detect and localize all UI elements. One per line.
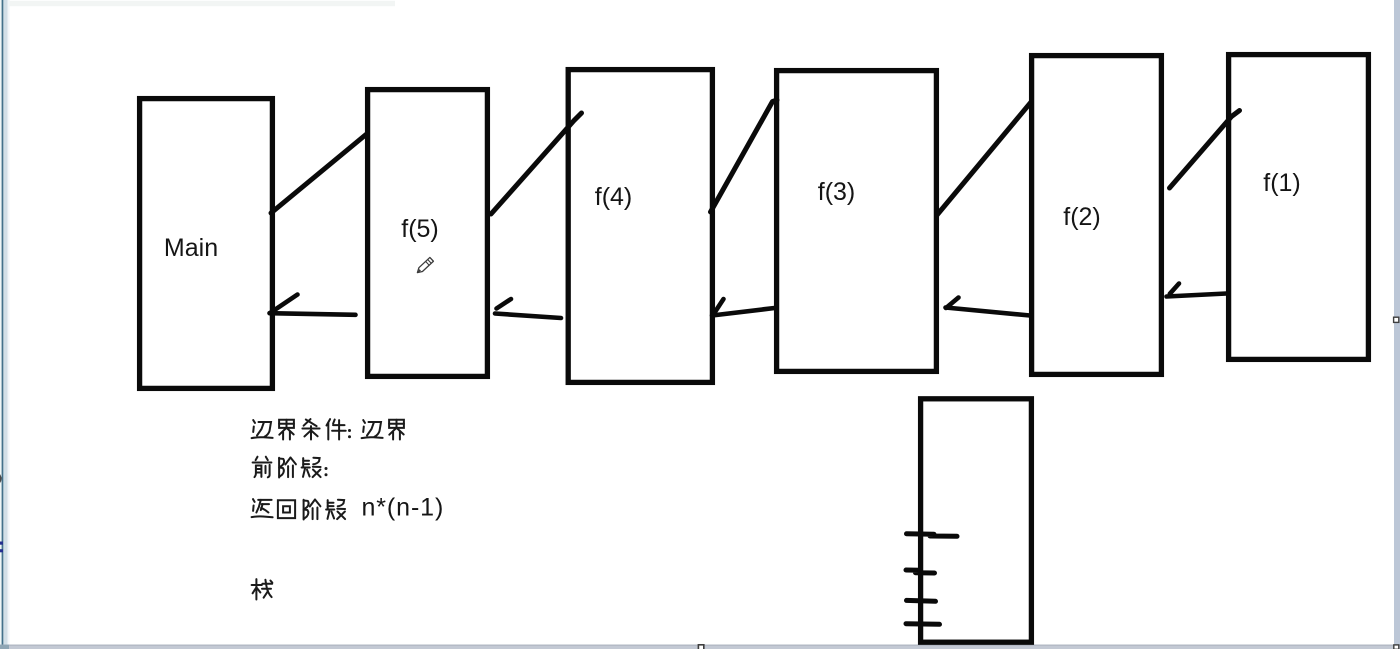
- call arrow f(2) to f(1): [1170, 111, 1240, 189]
- return arrow f(3) to f(4) barb: [714, 299, 724, 314]
- call arrow Main to f(5): [271, 135, 366, 214]
- return arrow f(4) to f(5) barb: [497, 299, 512, 309]
- stack tick 2: [906, 570, 935, 573]
- box Main: [140, 99, 273, 389]
- call arrow f(3) to f(2): [937, 102, 1032, 216]
- bottom scrollbar bar: [0, 645, 1400, 649]
- return arrow f(2) to f(3) barb: [946, 298, 959, 309]
- call arrow f(5) to f(4): [491, 113, 582, 214]
- bottom scrollbar square marker: [698, 645, 703, 649]
- box f(3): [777, 71, 937, 372]
- box f(1): [1229, 55, 1369, 360]
- left edge dark smudge: [0, 474, 2, 483]
- faint top toolbar band: [9, 1, 395, 6]
- annotation line 3 text: fan hui jie duan: [252, 499, 346, 519]
- svg-text:f(4): f(4): [595, 183, 633, 211]
- return arrow f(3) to f(4) shaft: [712, 308, 775, 316]
- left edge blue dashes: [0, 542, 3, 553]
- return arrow f(1) to f(2) shaft: [1167, 294, 1227, 297]
- return arrow f(2) to f(3) shaft: [946, 308, 1031, 316]
- call arrow f(4) to f(3): [711, 100, 778, 212]
- annotation line 1 text: bian jie tiao jian : bian jie: [252, 419, 404, 439]
- box f(5): [368, 90, 488, 377]
- left window-edge strip: [0, 0, 10, 649]
- svg-text:f(5): f(5): [401, 215, 439, 243]
- svg-text:f(2): f(2): [1063, 203, 1101, 231]
- stack tick 1: [907, 534, 958, 537]
- pencil icon: [416, 257, 434, 274]
- svg-text:Main: Main: [164, 234, 218, 262]
- return arrow f(5) to Main shaft: [270, 313, 356, 315]
- return arrow f(5) to Main barb: [270, 295, 298, 314]
- box f(4): [568, 70, 712, 383]
- return arrow f(4) to f(5) shaft: [495, 314, 561, 319]
- stack box: [921, 399, 1032, 642]
- stack tick 4: [906, 621, 940, 627]
- annotation line 4 text: zhan: [252, 579, 273, 599]
- right scrollbar square marker: [1394, 317, 1399, 322]
- svg-text:f(3): f(3): [818, 178, 856, 206]
- svg-text:n*(n-1): n*(n-1): [362, 494, 445, 522]
- annotation line 2 text: qian jie duan :: [253, 457, 328, 478]
- bottom-right corner square marker: [1394, 645, 1399, 649]
- svg-text:f(1): f(1): [1263, 169, 1301, 197]
- right scrollbar strip: [1394, 0, 1400, 649]
- return arrow f(1) to f(2) barb: [1170, 284, 1179, 294]
- box f(2): [1032, 56, 1162, 375]
- stack tick 3: [907, 598, 936, 604]
